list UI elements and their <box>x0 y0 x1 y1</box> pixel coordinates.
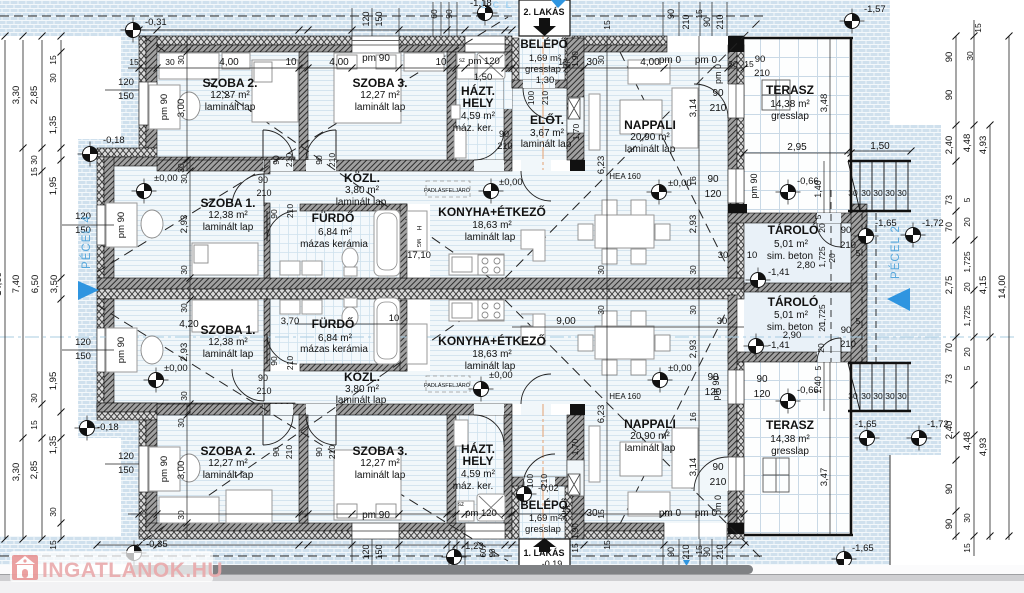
svg-text:2,93: 2,93 <box>688 215 699 234</box>
svg-text:4,00: 4,00 <box>219 57 239 68</box>
svg-text:1,95: 1,95 <box>48 177 59 196</box>
svg-text:90: 90 <box>499 129 509 139</box>
furniture szoba3 lower: bed <box>334 450 401 520</box>
roof diagonal dashed lower unit 2 <box>97 305 508 561</box>
svg-text:12,27 m²: 12,27 m² <box>208 458 248 469</box>
svg-text:14,38 m²: 14,38 m² <box>770 434 810 445</box>
svg-text:30: 30 <box>885 391 895 401</box>
svg-text:4,48: 4,48 <box>962 134 973 153</box>
svg-text:laminált lap: laminált lap <box>625 144 676 155</box>
dashed vertical through tároló doors <box>830 190 832 362</box>
svg-text:1,70: 1,70 <box>571 123 581 140</box>
svg-text:1,95: 1,95 <box>48 372 59 391</box>
svg-text:120: 120 <box>118 77 134 88</box>
svg-text:-1,65: -1,65 <box>852 543 874 554</box>
orange section line through belépő upper <box>542 0 544 170</box>
svg-text:1,725: 1,725 <box>817 304 827 326</box>
svg-text:sz: sz <box>459 58 465 64</box>
furniture szoba3 upper: bed <box>334 53 401 123</box>
svg-text:15: 15 <box>596 509 606 519</box>
svg-text:210: 210 <box>327 445 337 459</box>
svg-text:laminált lap: laminált lap <box>203 470 254 481</box>
svg-text:120: 120 <box>75 337 91 348</box>
svg-text:HELY: HELY <box>463 454 494 468</box>
svg-text:30: 30 <box>596 265 606 275</box>
exterior top wall inner leaf <box>146 45 352 52</box>
terasz lower outline <box>744 534 853 536</box>
svg-text:2,85: 2,85 <box>29 461 40 480</box>
marker -1,23 bottom center <box>442 545 467 570</box>
stove upper <box>478 255 504 275</box>
svg-text:90: 90 <box>707 174 719 185</box>
svg-text:30: 30 <box>728 59 738 69</box>
roof diagonal dashed nappali lower <box>620 308 728 524</box>
svg-text:30: 30 <box>861 391 871 401</box>
svg-text:FÜRDŐ: FÜRDŐ <box>312 210 355 225</box>
svg-text:30: 30 <box>48 73 58 83</box>
svg-text:-0,35: -0,35 <box>146 539 168 550</box>
marker ±0,00 szoba1 upper <box>132 179 157 204</box>
left wall szoba2 upper <box>139 36 146 148</box>
room fill: szoba2 lower <box>157 415 299 523</box>
svg-text:90: 90 <box>269 209 279 219</box>
blue triangle top <box>551 0 566 8</box>
dashed vertical lines between outdoor stairs <box>861 213 863 362</box>
roof diagonal dashed upper unit 2 <box>97 17 508 272</box>
marker ±0,00 nappali lower <box>648 368 673 393</box>
svg-text:12,27 m²: 12,27 m² <box>210 90 250 101</box>
svg-text:H: H <box>415 226 422 231</box>
wall szoba row / közl row upper, with door openings <box>157 160 512 171</box>
svg-text:5,01 m²: 5,01 m² <box>774 310 809 321</box>
svg-text:5: 5 <box>856 316 861 326</box>
wall előtér / nappali lower <box>567 415 584 539</box>
stairs upper dim 1,50 <box>848 150 911 152</box>
svg-text:5: 5 <box>814 214 823 219</box>
svg-text:NAPPALI: NAPPALI <box>624 118 676 132</box>
dim line szoba1l window 120/150 <box>62 349 114 351</box>
svg-text:2,93: 2,93 <box>179 215 190 234</box>
svg-text:90: 90 <box>944 90 955 101</box>
svg-text:90: 90 <box>841 225 852 236</box>
svg-text:210: 210 <box>715 14 725 29</box>
2.lakás arrow <box>533 18 556 36</box>
svg-text:3,14: 3,14 <box>688 99 699 118</box>
outdoor paving hatch: top band <box>0 0 890 36</box>
wall közl row / szoba row lower with doors <box>157 404 512 415</box>
left dimension chain lines <box>4 40 6 539</box>
svg-text:210: 210 <box>710 477 727 488</box>
svg-text:4,00: 4,00 <box>329 57 349 68</box>
svg-text:pm 90: pm 90 <box>362 510 390 521</box>
svg-text:90: 90 <box>314 155 324 165</box>
svg-text:15: 15 <box>602 20 612 30</box>
vertical dim line szoba2l x187 <box>186 404 188 539</box>
scrollbar bottom shadow band <box>0 574 1024 581</box>
svg-text:90: 90 <box>488 548 497 557</box>
svg-text:SZOBA 1.: SZOBA 1. <box>201 323 256 337</box>
svg-text:1,35: 1,35 <box>48 116 59 135</box>
svg-text:210: 210 <box>754 68 770 79</box>
svg-text:SZOBA 2.: SZOBA 2. <box>203 76 258 90</box>
section dashed line bottom <box>0 555 512 557</box>
fridge cabinets upper (H MG) <box>407 211 427 251</box>
svg-text:12,27 m²: 12,27 m² <box>360 458 400 469</box>
room fill: közl lower <box>264 371 430 404</box>
window szoba2 upper left wall <box>139 82 157 125</box>
svg-text:4,59 m²: 4,59 m² <box>461 469 496 480</box>
svg-text:120: 120 <box>118 451 134 462</box>
svg-text:30: 30 <box>179 265 189 275</box>
window szoba1 lower left wall <box>97 328 114 372</box>
bottom hatch vertical dim lines házt window <box>448 539 450 566</box>
svg-text:12,27 m²: 12,27 m² <box>360 90 400 101</box>
svg-text:5: 5 <box>814 365 823 370</box>
svg-text:90: 90 <box>258 373 268 383</box>
svg-text:TERASZ: TERASZ <box>766 83 814 97</box>
room fill: szoba2 upper <box>157 52 299 160</box>
svg-text:30: 30 <box>165 57 175 67</box>
wall szoba3u / házt <box>447 52 456 160</box>
svg-text:30: 30 <box>176 55 186 65</box>
dim line szoba1u window 120/150 <box>62 224 114 226</box>
svg-text:6,50: 6,50 <box>30 275 41 294</box>
furniture nappali upper: sofa set <box>628 60 670 84</box>
marker -0,31 top left <box>121 18 146 43</box>
furniture házt upper: shower + washer <box>477 53 505 79</box>
step wall between szoba2u and szoba1u <box>97 148 157 157</box>
svg-text:1,90: 1,90 <box>571 523 580 539</box>
svg-text:120: 120 <box>361 544 371 559</box>
right exterior wall upper <box>728 45 737 278</box>
svg-text:MG: MG <box>415 239 421 248</box>
svg-text:15: 15 <box>744 59 754 69</box>
svg-text:30: 30 <box>176 418 186 428</box>
right chain ticks <box>953 33 960 40</box>
svg-text:210: 210 <box>681 14 691 29</box>
svg-text:120: 120 <box>361 11 371 26</box>
marker -0,18 left lower <box>75 416 100 441</box>
terasz upper outline <box>744 37 853 39</box>
area below scrollbar <box>0 581 1024 593</box>
room fill: belépő lower <box>512 485 572 536</box>
svg-text:3,30: 3,30 <box>11 463 22 482</box>
svg-text:210: 210 <box>284 153 294 167</box>
svg-text:TÁROLÓ: TÁROLÓ <box>768 294 819 309</box>
svg-text:3,30: 3,30 <box>11 86 22 105</box>
marker -1,72 stairs lower <box>907 426 932 451</box>
svg-text:15: 15 <box>129 57 139 67</box>
svg-text:4,00: 4,00 <box>640 57 660 68</box>
svg-text:90: 90 <box>666 9 676 19</box>
dim line top row y68 <box>128 67 744 69</box>
svg-text:pm 90: pm 90 <box>362 53 390 64</box>
black jamb at előtér wall top lower <box>570 404 585 415</box>
marker -1,41 tároló lower <box>744 334 769 359</box>
svg-text:pm 90: pm 90 <box>116 212 127 238</box>
window szoba1 upper left wall <box>97 205 114 245</box>
svg-text:HELY: HELY <box>463 96 494 110</box>
svg-text:15: 15 <box>29 167 39 177</box>
room fill: terasz upper <box>744 39 849 213</box>
svg-text:20: 20 <box>962 282 972 292</box>
svg-text:30: 30 <box>718 250 729 261</box>
scrollbar thumb <box>129 565 753 574</box>
svg-text:laminált lap: laminált lap <box>203 349 254 360</box>
svg-text:PÉCEL 2: PÉCEL 2 <box>889 225 902 279</box>
thin party band across tároló block <box>744 283 867 292</box>
dim line bottom row y514 <box>128 513 744 515</box>
svg-text:6,84 m²: 6,84 m² <box>318 227 353 238</box>
vertical dim lines nappali lower <box>606 299 608 539</box>
blue triangle right <box>887 288 910 311</box>
marker -0,02 belépő lower <box>512 482 537 507</box>
vertical dim lines nappali upper <box>606 36 608 299</box>
outdoor hatch right side <box>853 0 890 130</box>
svg-text:120: 120 <box>754 389 771 400</box>
svg-text:KÖZL.: KÖZL. <box>344 170 380 185</box>
outdoor hatch left middle strip <box>78 139 140 167</box>
door fürdő lower <box>267 334 297 364</box>
svg-text:2,93: 2,93 <box>179 343 190 362</box>
fürdő upper top wall <box>300 204 407 211</box>
svg-text:90: 90 <box>712 462 724 473</box>
exterior dim line below bottom wall <box>97 544 744 546</box>
door szoba2 upper <box>263 130 293 160</box>
marker -0,66 terasz lower <box>776 389 801 414</box>
svg-text:gresslap: gresslap <box>525 64 561 75</box>
svg-text:30: 30 <box>965 51 975 61</box>
svg-text:16: 16 <box>688 412 698 422</box>
room fill: fürdő upper <box>270 204 400 278</box>
window szoba2 lower left wall <box>139 446 157 492</box>
roof diagonal dashed konyha upper <box>505 17 763 278</box>
svg-text:KÖZL.: KÖZL. <box>344 369 380 384</box>
svg-text:4,59 m²: 4,59 m² <box>461 111 496 122</box>
svg-text:laminált lap: laminált lap <box>625 443 676 454</box>
svg-text:210: 210 <box>840 240 856 251</box>
svg-text:10: 10 <box>389 313 400 324</box>
terrace door lower <box>728 457 744 491</box>
svg-text:2,93: 2,93 <box>688 340 699 359</box>
svg-text:30: 30 <box>179 174 189 184</box>
svg-text:15: 15 <box>602 540 612 550</box>
előtér wardrobe X upper <box>568 98 580 119</box>
svg-text:10: 10 <box>285 57 297 68</box>
svg-text:-0,02: -0,02 <box>538 483 559 493</box>
svg-text:1,90: 1,90 <box>571 51 580 67</box>
svg-text:20,90 m²: 20,90 m² <box>630 431 670 442</box>
wall szoba3l / házt lower <box>447 415 456 523</box>
svg-text:90: 90 <box>702 547 712 557</box>
vertical dim line szoba1l x190 <box>189 299 191 415</box>
svg-text:SZOBA 1.: SZOBA 1. <box>201 196 256 210</box>
furniture szoba1 lower <box>106 328 137 372</box>
svg-text:30: 30 <box>48 507 58 517</box>
marker ±0,00 nappali upper <box>647 180 672 205</box>
terasz dim lines <box>829 38 831 213</box>
wall házt / előtér upper <box>504 52 512 160</box>
vertical dim line szoba2u x187 <box>186 36 188 171</box>
roof diagonal dashed upper unit 1 <box>130 27 490 278</box>
outdoor hatch left lower strip <box>121 420 140 539</box>
window szoba3 upper in top wall <box>352 36 399 45</box>
belépő side walls upper <box>512 38 519 88</box>
marker -1,41 tároló upper <box>746 268 771 293</box>
party wall between units <box>97 278 744 289</box>
svg-text:210: 210 <box>256 386 271 396</box>
marker ±0,00 konyha lower <box>469 377 494 402</box>
svg-text:±0,00: ±0,00 <box>499 177 523 188</box>
marker -0,35 bottom left <box>122 541 147 566</box>
wall between szoba2u/szoba3u <box>299 52 308 160</box>
svg-text:10: 10 <box>435 57 447 68</box>
orange section line through belépő lower <box>542 404 544 570</box>
room fill: szoba1 lower <box>114 300 264 412</box>
white indent lower-left outside building <box>62 438 121 536</box>
svg-text:-1,41: -1,41 <box>768 267 790 278</box>
terasz 2,95 1,50 dims upper <box>744 152 851 154</box>
svg-text:210: 210 <box>327 153 337 167</box>
svg-text:30: 30 <box>873 188 883 198</box>
svg-text:L C L: L C L <box>481 0 513 10</box>
wall szoba2l/szoba3l <box>299 415 308 523</box>
svg-text:90: 90 <box>666 547 676 557</box>
svg-text:3,80 m²: 3,80 m² <box>345 185 380 196</box>
svg-text:1,30: 1,30 <box>536 75 555 86</box>
svg-text:30: 30 <box>179 391 189 401</box>
marker -1,18 top center <box>473 1 498 26</box>
svg-text:3,47: 3,47 <box>819 468 830 487</box>
room fill: közl upper <box>264 171 430 204</box>
svg-text:6,84 m²: 6,84 m² <box>318 333 353 344</box>
svg-text:30: 30 <box>176 163 186 173</box>
svg-text:210: 210 <box>715 544 725 559</box>
door szoba3 upper <box>306 130 336 160</box>
svg-text:4,93: 4,93 <box>978 136 989 155</box>
svg-text:pm 120: pm 120 <box>468 56 500 67</box>
svg-text:90: 90 <box>944 52 955 63</box>
svg-text:30: 30 <box>717 316 728 327</box>
svg-text:-1,41: -1,41 <box>768 340 790 351</box>
svg-text:3,70: 3,70 <box>281 316 300 327</box>
furniture szoba2 upper: wardrobe + bed <box>159 53 219 79</box>
marker -1,57 top right <box>840 9 865 34</box>
room fill: belépő upper <box>512 38 572 88</box>
svg-text:5: 5 <box>962 365 972 370</box>
svg-text:pm 120: pm 120 <box>465 508 497 519</box>
svg-text:10: 10 <box>747 250 758 261</box>
svg-text:3,80 m²: 3,80 m² <box>345 384 380 395</box>
door tároló lower <box>817 338 841 362</box>
window szoba3 lower in bottom wall <box>352 523 399 539</box>
svg-text:90: 90 <box>702 17 712 27</box>
right dimension chain lines <box>955 36 957 540</box>
black jamb bottom right <box>728 523 744 534</box>
svg-text:30: 30 <box>596 55 606 65</box>
svg-text:90: 90 <box>756 374 768 385</box>
svg-text:±0,00: ±0,00 <box>154 173 178 184</box>
marker -0,18 left upper <box>78 142 103 167</box>
svg-text:30: 30 <box>897 188 907 198</box>
door belépő->előtér upper <box>523 88 555 120</box>
svg-text:60: 60 <box>429 9 439 19</box>
svg-text:-1,72: -1,72 <box>927 419 949 430</box>
svg-text:30: 30 <box>560 512 569 521</box>
black jamb top right <box>728 36 744 52</box>
svg-text:laminált lap: laminált lap <box>336 395 387 406</box>
black jamb at előtér wall bottom upper <box>570 160 585 171</box>
svg-text:1,35: 1,35 <box>48 436 59 455</box>
window házt lower in bottom wall <box>465 523 505 539</box>
svg-text:73: 73 <box>944 374 954 384</box>
svg-text:30: 30 <box>29 155 39 165</box>
svg-text:2,75: 2,75 <box>944 276 955 295</box>
svg-text:máz. ker.: máz. ker. <box>453 123 494 134</box>
room fill: előtér lower <box>512 415 567 477</box>
top hatch vertical dim line szoba3 window <box>351 8 353 36</box>
outdoor stairs lower <box>848 363 911 411</box>
svg-text:30: 30 <box>848 188 858 198</box>
marker -1,65 stairs lower <box>855 426 880 451</box>
vertical dim line szoba1u x190 <box>189 157 191 299</box>
marker -1,65 bottom right <box>832 547 857 572</box>
svg-text:210: 210 <box>540 91 550 105</box>
svg-text:PADLÁSFELJÁRÓ: PADLÁSFELJÁRÓ <box>424 382 471 389</box>
marker ±0,00 konyha upper <box>479 179 504 204</box>
roof diagonal dashed nappali upper <box>620 52 728 268</box>
svg-text:SZOBA 3.: SZOBA 3. <box>353 444 408 458</box>
room fill: nappali+konyha upper <box>584 52 728 278</box>
svg-text:20,90 m²: 20,90 m² <box>630 132 670 143</box>
svg-text:TERASZ: TERASZ <box>766 418 814 432</box>
svg-text:20: 20 <box>827 253 837 263</box>
wall előtér / nappali upper <box>567 38 584 160</box>
svg-text:4,93: 4,93 <box>978 438 989 457</box>
svg-text:1,70: 1,70 <box>570 438 580 455</box>
svg-text:-1,23: -1,23 <box>462 541 484 552</box>
svg-text:100: 100 <box>525 474 535 488</box>
svg-text:210: 210 <box>284 445 294 459</box>
roof diagonal dashed lower unit 1 <box>130 300 490 550</box>
svg-text:210: 210 <box>285 204 295 218</box>
dim line szoba2u window 120/150 <box>105 89 139 91</box>
svg-text:30: 30 <box>688 265 698 275</box>
svg-text:3,50: 3,50 <box>49 275 60 294</box>
door szoba3 lower <box>306 415 336 445</box>
furniture kitchen counter upper <box>449 254 504 275</box>
svg-text:1,725: 1,725 <box>962 305 972 327</box>
room fill: szoba3 upper <box>308 52 447 160</box>
svg-text:18,63 m²: 18,63 m² <box>472 220 512 231</box>
svg-text:INGATLANOK.HU: INGATLANOK.HU <box>42 559 223 582</box>
left chain ticks <box>2 33 9 40</box>
blue triangle left <box>78 281 99 300</box>
furniture nappali lower <box>628 492 670 516</box>
svg-text:gresslap: gresslap <box>525 524 561 535</box>
svg-text:30: 30 <box>885 188 895 198</box>
roof diagonal dashed konyha lower <box>505 300 763 560</box>
door szoba1 lower <box>232 369 264 401</box>
left wall szoba1 upper <box>97 157 104 278</box>
svg-text:sim. beton: sim. beton <box>767 251 813 262</box>
furniture dining table upper + chairs <box>602 200 617 215</box>
svg-text:30: 30 <box>861 188 871 198</box>
svg-text:210: 210 <box>681 544 691 559</box>
svg-text:30: 30 <box>179 303 189 313</box>
svg-text:NAPPALI: NAPPALI <box>624 417 676 431</box>
room fill: szoba3 lower <box>308 415 447 523</box>
